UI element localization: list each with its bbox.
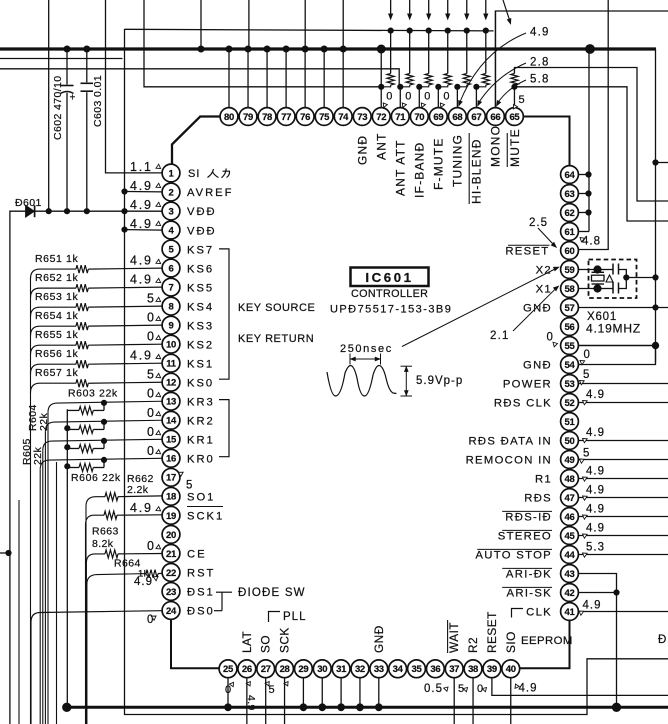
wire arrows header line — [125, 29, 494, 31]
label pin 59 X2 — [536, 265, 552, 277]
junction x655 crystal — [653, 275, 658, 280]
arrow into pin 70 net — [427, 0, 431, 19]
junction crystal bottom — [594, 285, 601, 292]
value pin 38 — [458, 683, 469, 695]
pin 27 — [257, 660, 275, 678]
pin 19 — [162, 506, 180, 524]
value pin 12 — [147, 368, 162, 382]
pin 42 — [561, 584, 579, 602]
svg-text:F-MUTE: F-MUTE — [432, 137, 446, 190]
svg-text:4.9: 4.9 — [586, 466, 605, 478]
junction pin 15 wire — [101, 438, 106, 443]
junction bus pin 78 — [264, 46, 270, 52]
IC outline top-right corner — [523, 117, 569, 166]
svg-text:45: 45 — [565, 531, 576, 542]
label IC601 box — [351, 268, 429, 287]
resistor R656 — [76, 360, 88, 368]
svg-text:0: 0 — [147, 330, 156, 344]
svg-text:75: 75 — [319, 112, 330, 123]
resistor above pin 69 — [438, 31, 451, 87]
value pin 41 — [578, 600, 602, 616]
svg-text:1.1: 1.1 — [130, 160, 153, 174]
pin 77 — [277, 108, 295, 126]
pin 4 — [162, 221, 180, 239]
pin 78 — [258, 108, 276, 126]
svg-text:31: 31 — [336, 664, 347, 675]
label pin 48 R1 — [535, 474, 552, 486]
label R606 — [71, 472, 121, 484]
svg-text:KR3: KR3 — [187, 396, 215, 408]
wire R653 left hook — [31, 307, 77, 317]
label pin 23 ĐS1 — [187, 587, 215, 599]
svg-text:0: 0 — [147, 444, 156, 458]
svg-text:78: 78 — [262, 112, 272, 123]
wire pin 68 stub — [456, 87, 458, 108]
wire pin 74 to bus — [342, 49, 344, 108]
svg-text:43: 43 — [565, 569, 575, 580]
svg-text:77: 77 — [281, 112, 291, 123]
svg-text:R664: R664 — [114, 558, 141, 570]
pin 47 — [561, 489, 579, 507]
svg-text:53: 53 — [565, 379, 575, 390]
value pin 25 — [225, 681, 235, 696]
svg-text:4.9: 4.9 — [586, 485, 605, 497]
value pin 66 leader — [495, 74, 549, 107]
label pin 39 RESET — [485, 611, 499, 653]
label pin 52 RĐS CLK — [494, 398, 552, 410]
label R663 — [92, 526, 119, 551]
bracket CLK — [512, 609, 524, 618]
wire pin 69 stub — [437, 87, 439, 108]
svg-text:72: 72 — [376, 112, 386, 123]
svg-text:71: 71 — [395, 112, 406, 123]
label pin 6 KS6 — [187, 263, 214, 275]
svg-text:5.8: 5.8 — [530, 74, 550, 86]
svg-text:MONO: MONO — [489, 125, 503, 167]
label R656 — [35, 348, 78, 360]
label R662 — [127, 473, 154, 496]
value pin 1 — [130, 160, 162, 174]
junction pin 68 y87 — [455, 84, 460, 89]
svg-text:4.9: 4.9 — [586, 389, 605, 401]
pin 57 — [561, 299, 579, 317]
svg-text:50: 50 — [565, 436, 575, 447]
pin 73 — [353, 108, 371, 126]
wire R656 left hook — [31, 364, 77, 374]
svg-text:5: 5 — [147, 368, 156, 382]
value pin 68 leader — [457, 27, 549, 107]
junction R605 common — [65, 445, 70, 450]
value pin 27 — [265, 680, 274, 696]
label D601 — [15, 197, 42, 209]
arrow into pin 67 net — [484, 0, 488, 19]
wire vertical x144 corner — [144, 0, 380, 87]
junction bus pin 74 — [340, 46, 346, 52]
svg-text:52: 52 — [565, 398, 575, 409]
pin 60 — [561, 242, 579, 260]
svg-text:GNĐ: GNĐ — [523, 360, 552, 372]
junction stub 62 — [586, 210, 591, 215]
label pin 65 MUTE — [508, 128, 522, 167]
svg-text:KR0: KR0 — [187, 454, 215, 466]
waveform sine — [327, 366, 397, 397]
label pin 53 POWER — [503, 379, 552, 391]
svg-text:41: 41 — [565, 607, 576, 618]
arrow into pin 69 net — [446, 0, 450, 19]
arrow into pin 72 net — [389, 0, 393, 19]
pin 11 — [162, 354, 180, 372]
value pin 2 — [130, 179, 162, 193]
pin 64 — [561, 166, 579, 184]
wire pin 42 — [578, 592, 616, 594]
svg-text:KS7: KS7 — [187, 244, 214, 256]
pin 18 — [162, 487, 180, 505]
value pin 39 — [477, 683, 488, 695]
junction arrow line 67 — [483, 28, 488, 33]
pin 3 — [162, 202, 180, 220]
svg-text:CLK: CLK — [526, 607, 552, 619]
svg-text:18: 18 — [166, 492, 176, 503]
svg-text:0: 0 — [147, 425, 156, 439]
label pin 27 SO — [259, 635, 273, 653]
svg-text:38: 38 — [468, 664, 478, 675]
pin 36 — [426, 660, 444, 678]
label pin 13 KR3 — [187, 396, 215, 408]
svg-text:16: 16 — [166, 454, 176, 465]
capacitor C602 — [61, 49, 76, 211]
pin 79 — [239, 108, 257, 126]
svg-text:SO: SO — [259, 635, 273, 653]
label pin 14 KR2 — [187, 415, 215, 427]
pin 14 — [162, 411, 180, 429]
wire pin 44 to edge — [578, 554, 668, 556]
pin 10 — [162, 335, 180, 353]
svg-text:MUTE: MUTE — [508, 128, 522, 167]
svg-text:RST: RST — [187, 568, 215, 580]
svg-text:57: 57 — [565, 303, 575, 314]
label pin 49 REMOCON IN — [466, 455, 552, 467]
svg-text:4.9: 4.9 — [583, 600, 602, 612]
svg-text:PLL: PLL — [283, 611, 306, 623]
label pin 28 SCK — [278, 627, 292, 653]
pin 9 — [162, 316, 180, 334]
wire pin 55 — [578, 345, 655, 347]
svg-text:R606 22k: R606 22k — [71, 472, 121, 484]
pin 44 — [561, 546, 579, 564]
pin 62 — [561, 204, 579, 222]
svg-text:AUTO STOP: AUTO STOP — [475, 550, 552, 562]
bracket KEY RETURN — [219, 400, 229, 457]
svg-text:R1: R1 — [535, 474, 552, 486]
label pin 2 AVREF — [187, 187, 233, 199]
svg-text:VĐĐ: VĐĐ — [187, 206, 217, 218]
svg-text:SO1: SO1 — [187, 492, 215, 504]
pin 33 — [370, 660, 388, 678]
svg-text:2.8: 2.8 — [530, 57, 550, 69]
pin 49 — [561, 451, 579, 469]
pin 43 — [561, 565, 579, 583]
wire vertical x105.5 to pin1 — [106, 0, 163, 173]
junction bottom bus 31 — [338, 704, 345, 711]
pin 38 — [464, 660, 482, 678]
svg-text:AVREF: AVREF — [187, 187, 233, 199]
wire pin 67 stub — [475, 87, 477, 108]
value pin 50 — [581, 427, 605, 443]
junction pin 72 y87 — [379, 84, 384, 89]
capacitor crystal top — [598, 264, 627, 278]
svg-text:ARI-SK: ARI-SK — [507, 588, 552, 600]
label pin 69 F-MUTE — [432, 137, 446, 190]
wire pin 61 elbow — [578, 231, 589, 233]
svg-text:R655 1k: R655 1k — [35, 329, 78, 341]
svg-text:4.9: 4.9 — [134, 576, 153, 588]
label pin 58 X1 — [536, 284, 552, 296]
wire pin 14 row — [45, 420, 162, 724]
svg-text:4.9: 4.9 — [130, 349, 153, 363]
resistor R657 — [76, 379, 88, 387]
pin 72 — [372, 108, 390, 126]
label R654 — [35, 310, 78, 322]
arrow into pin 71 net — [408, 0, 412, 19]
junction arrow line 69 — [445, 28, 450, 33]
svg-text:15: 15 — [166, 435, 177, 446]
pin 59 — [561, 261, 579, 279]
svg-text:30: 30 — [317, 664, 327, 675]
resistor above pin 68 — [457, 31, 470, 87]
svg-text:14: 14 — [166, 416, 177, 427]
value pin 21 — [147, 539, 162, 553]
pin 35 — [408, 660, 426, 678]
wire pin 22 RST — [87, 570, 162, 724]
label pin 19 SCK1 — [187, 511, 224, 523]
label pin 45 STEREO — [498, 531, 552, 543]
wire pin 41 down to pin 40 — [520, 620, 570, 668]
svg-text:ĐS0: ĐS0 — [187, 606, 215, 618]
wire pin 46 to edge — [578, 516, 668, 518]
overline WAIT — [447, 620, 449, 653]
pin 28 — [276, 660, 294, 678]
svg-text:0: 0 — [443, 91, 449, 103]
junction pin42 net — [614, 590, 619, 595]
junction bottom bus left — [63, 703, 71, 711]
pin 54 — [561, 356, 579, 374]
leader to X1 — [513, 285, 559, 331]
value pin 60 leader — [529, 217, 557, 248]
pin 17 — [162, 468, 180, 486]
svg-text:KS4: KS4 — [187, 301, 214, 313]
label pin 44 AUTO STOP — [475, 550, 552, 562]
svg-text:SCK: SCK — [278, 627, 292, 653]
svg-text:60: 60 — [565, 246, 575, 257]
pin 29 — [295, 660, 313, 678]
svg-text:POWER: POWER — [503, 379, 552, 391]
svg-text:21: 21 — [166, 549, 177, 560]
junction bus pin 75 — [321, 46, 327, 52]
wire pin 49 to edge — [578, 459, 668, 461]
svg-text:ARI-ĐK: ARI-ĐK — [506, 569, 552, 581]
label CONTROLLER — [351, 288, 428, 300]
svg-text:ĐIOĐE SW: ĐIOĐE SW — [238, 587, 306, 599]
junction D601 wire x48.7 — [46, 209, 51, 214]
wire pin 2 AVREF — [125, 191, 163, 193]
pin 66 — [487, 108, 505, 126]
junction arrow line 71 — [407, 28, 412, 33]
label pin 60 RESET — [505, 246, 549, 258]
label C603 — [92, 75, 104, 127]
svg-text:0: 0 — [147, 311, 156, 325]
pin 25 — [219, 660, 237, 678]
svg-text:29: 29 — [298, 664, 308, 675]
svg-text:23: 23 — [166, 587, 176, 598]
label pin 1 nyuryoku — [208, 169, 230, 178]
junction D601 wire C602 — [64, 209, 69, 214]
pin 20 — [162, 525, 180, 543]
wire left margin v1 — [18, 500, 20, 724]
svg-text:5.3: 5.3 — [586, 542, 605, 554]
pin 51 — [561, 413, 579, 431]
svg-text:61: 61 — [565, 227, 576, 238]
svg-text:LAT: LAT — [240, 631, 254, 653]
label pin 72 ANT — [375, 132, 389, 160]
wire R654 left hook — [31, 326, 77, 336]
wire top bus corner down to right column — [655, 49, 657, 362]
svg-text:Đ: Đ — [658, 634, 666, 646]
pin 76 — [296, 108, 314, 126]
svg-text:KR1: KR1 — [187, 434, 215, 446]
junction stub 63 — [586, 191, 591, 196]
overline ARI-ĐK — [502, 567, 552, 569]
symbol crystal triangle — [606, 275, 613, 282]
junction D601 wire x124.5 — [122, 209, 127, 214]
svg-text:22k: 22k — [38, 413, 50, 431]
label edge D — [658, 634, 666, 646]
svg-text:62: 62 — [565, 208, 575, 219]
overline RĐS-IĐ — [502, 510, 552, 512]
label R652 — [35, 272, 78, 284]
svg-text:25: 25 — [223, 664, 234, 675]
pin 2 — [162, 183, 180, 201]
value pin 61 — [578, 236, 601, 248]
value pin 47 — [581, 485, 605, 501]
resistor above pin 71 — [400, 31, 413, 87]
label R664 — [114, 558, 149, 580]
svg-text:76: 76 — [300, 112, 310, 123]
bracket PLL — [269, 612, 281, 623]
svg-text:HI-BLENĐ: HI-BLENĐ — [470, 138, 484, 204]
IC outline top-left chamfer — [172, 117, 220, 165]
svg-text:KS1: KS1 — [187, 358, 214, 370]
svg-text:3: 3 — [169, 206, 174, 217]
junction arrow line 68 — [464, 28, 469, 33]
label C602 — [52, 75, 64, 140]
svg-text:GNĐ: GNĐ — [523, 303, 552, 315]
resistor above pin 65 — [511, 74, 518, 87]
pin 68 — [448, 108, 466, 126]
svg-text:RĐS ĐATA IN: RĐS ĐATA IN — [468, 436, 552, 448]
svg-text:0: 0 — [547, 332, 553, 344]
svg-text:0: 0 — [147, 406, 156, 420]
wire left margin v5 — [56, 462, 58, 724]
wire pin 70 stub — [418, 87, 420, 108]
resistor R655 — [76, 341, 88, 349]
junction pin 14 wire — [101, 419, 106, 424]
pin 45 — [561, 527, 579, 545]
svg-text:0: 0 — [424, 91, 430, 103]
wire pin 27 down — [265, 678, 267, 724]
label pin 26 LAT — [240, 631, 254, 653]
svg-text:22k: 22k — [32, 447, 44, 465]
pin 74 — [334, 108, 352, 126]
svg-text:5.9Vp-p: 5.9Vp-p — [416, 375, 463, 387]
junction pin 69 y87 — [436, 84, 441, 89]
wire right edge y162 — [656, 162, 668, 164]
svg-text:RĐS-IĐ: RĐS-IĐ — [505, 512, 552, 524]
svg-text:X1: X1 — [536, 284, 552, 296]
wire pin 28 down — [284, 678, 286, 724]
junction bottom bus 25 — [225, 704, 232, 711]
wire pin 79 to bus — [247, 49, 249, 108]
value pin 22 below — [134, 575, 159, 588]
value pin 17 — [177, 470, 192, 491]
pin 26 — [238, 660, 256, 678]
resistor above pin 67 — [476, 31, 489, 87]
dimension 250nsec — [350, 354, 381, 365]
value pin 71 — [400, 91, 411, 108]
wire pin 10 row — [88, 344, 162, 345]
svg-text:2.2k: 2.2k — [127, 484, 149, 496]
svg-text:KS5: KS5 — [187, 282, 214, 294]
svg-text:VĐĐ: VĐĐ — [187, 225, 217, 237]
wire pin 41 to edge — [578, 611, 668, 613]
wire pin 9 row — [88, 325, 162, 326]
wire pin 72 stub — [380, 87, 382, 108]
label pin 47 RĐS — [524, 493, 552, 505]
wire net y69 corner to pin71 — [0, 69, 399, 87]
wire pin42 net down — [616, 593, 618, 708]
junction top bus / C602 — [64, 46, 70, 52]
wire pin 43 — [578, 574, 616, 593]
label pin 38 R2 — [466, 637, 480, 653]
svg-text:22: 22 — [166, 568, 176, 579]
label pin 7 KS5 — [187, 282, 214, 294]
pin 70 — [410, 108, 428, 126]
arrow into pin 68 net — [465, 0, 469, 19]
resistor R651 — [76, 265, 88, 273]
wire pin 58 to crystal — [578, 288, 597, 290]
value pin 44 — [581, 542, 605, 558]
svg-text:17: 17 — [166, 473, 176, 484]
pin 48 — [561, 470, 579, 488]
junction bottom bus 32 — [357, 704, 364, 711]
svg-text:2.1: 2.1 — [490, 330, 510, 342]
svg-text:54: 54 — [565, 360, 576, 371]
svg-text:24: 24 — [166, 606, 177, 617]
wire pin 78 to bus — [266, 49, 268, 108]
svg-text:4.9: 4.9 — [530, 27, 550, 39]
label pin 41 CLK — [526, 607, 552, 619]
label pin 68 TUNING — [451, 134, 465, 187]
value pin 45 — [581, 523, 605, 539]
junction D601 wire C603 — [84, 209, 89, 214]
svg-text:Đ601: Đ601 — [15, 197, 42, 209]
value pin 13 — [147, 387, 162, 401]
pin 15 — [162, 430, 180, 448]
svg-text:0: 0 — [386, 91, 392, 103]
wire pin 24 DS0 — [31, 611, 162, 724]
svg-text:ANT ATT: ANT ATT — [394, 139, 408, 196]
pin 39 — [483, 660, 501, 678]
pin 24 — [162, 602, 180, 620]
